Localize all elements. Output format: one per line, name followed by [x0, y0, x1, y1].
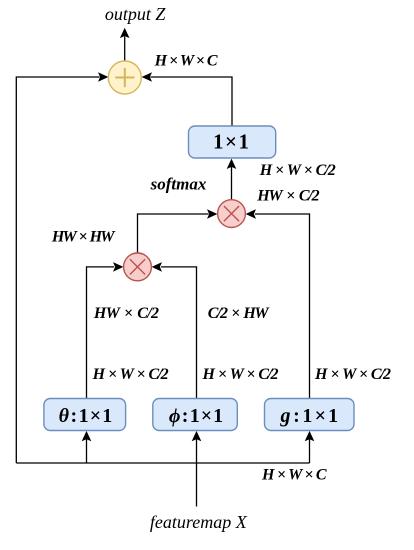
svg-text:H × W × C/2: H × W × C/2: [314, 366, 391, 383]
wire into g box: [305, 431, 315, 463]
label output Z: [105, 4, 167, 24]
box 1x1 conv: [189, 126, 276, 158]
svg-text:HW × C/2: HW × C/2: [93, 305, 159, 322]
svg-text:H × W × C/2: H × W × C/2: [259, 162, 336, 179]
lower product circle (circled times): [124, 253, 152, 281]
svg-text:1×1: 1×1: [213, 129, 249, 153]
label H x W x C/2 (above g): [314, 366, 391, 383]
wire 1x1 conv output to adder: [142, 72, 232, 126]
wire g output to upper product: [246, 209, 310, 398]
wire input riser from featuremap X: [196, 463, 198, 507]
svg-text:HW × HW: HW × HW: [51, 228, 116, 245]
label HW x HW: [51, 228, 116, 245]
box g 1x1: [265, 399, 355, 431]
label HW x C/2 (theta branch): [93, 305, 159, 322]
svg-text:softmax: softmax: [150, 174, 207, 193]
svg-text:H × W × C: H × W × C: [261, 466, 327, 483]
wire lower product output to upper product: [138, 209, 218, 252]
label HW x C/2 (right of upper product): [256, 187, 319, 204]
wire into theta box: [82, 431, 92, 463]
label H x W x C/2 (above theta): [92, 366, 169, 383]
box theta 1x1: [44, 399, 126, 431]
wire adder output Z: [120, 28, 130, 61]
label H x W x C/2 (above phi): [202, 366, 279, 383]
box phi 1x1: [153, 399, 238, 431]
svg-text:H × W × C: H × W × C: [154, 53, 218, 70]
svg-text:H × W × C/2: H × W × C/2: [202, 366, 279, 383]
upper product circle (circled times): [218, 200, 246, 228]
wire into phi box: [192, 431, 202, 463]
label featuremap X: [150, 512, 248, 532]
wire upper product output into 1x1 conv box: [227, 159, 237, 200]
svg-text:featuremap X: featuremap X: [150, 512, 248, 532]
wire phi output to lower product: [152, 262, 197, 398]
label C/2 x HW (phi branch): [208, 305, 271, 322]
svg-text:H × W × C/2: H × W × C/2: [92, 366, 169, 383]
label H x W x C (bottom): [261, 466, 327, 483]
op-amp adder circle (circled plus): [108, 61, 141, 94]
label softmax: [150, 174, 207, 193]
wire bottom rail: [16, 462, 309, 464]
wire skip connection into adder: [16, 72, 108, 463]
svg-text:θ:1×1: θ:1×1: [59, 405, 113, 427]
label H x W x C/2 (above upper product): [259, 162, 336, 179]
svg-text:C/2 × HW: C/2 × HW: [208, 305, 271, 322]
svg-text:ϕ:1×1: ϕ:1×1: [169, 405, 223, 427]
label H x W x C (top): [154, 53, 218, 70]
svg-text:HW × C/2: HW × C/2: [256, 187, 319, 204]
svg-text:g:1×1: g:1×1: [280, 405, 339, 427]
wire theta output to lower product: [87, 262, 124, 398]
svg-text:output Z: output Z: [105, 4, 167, 24]
